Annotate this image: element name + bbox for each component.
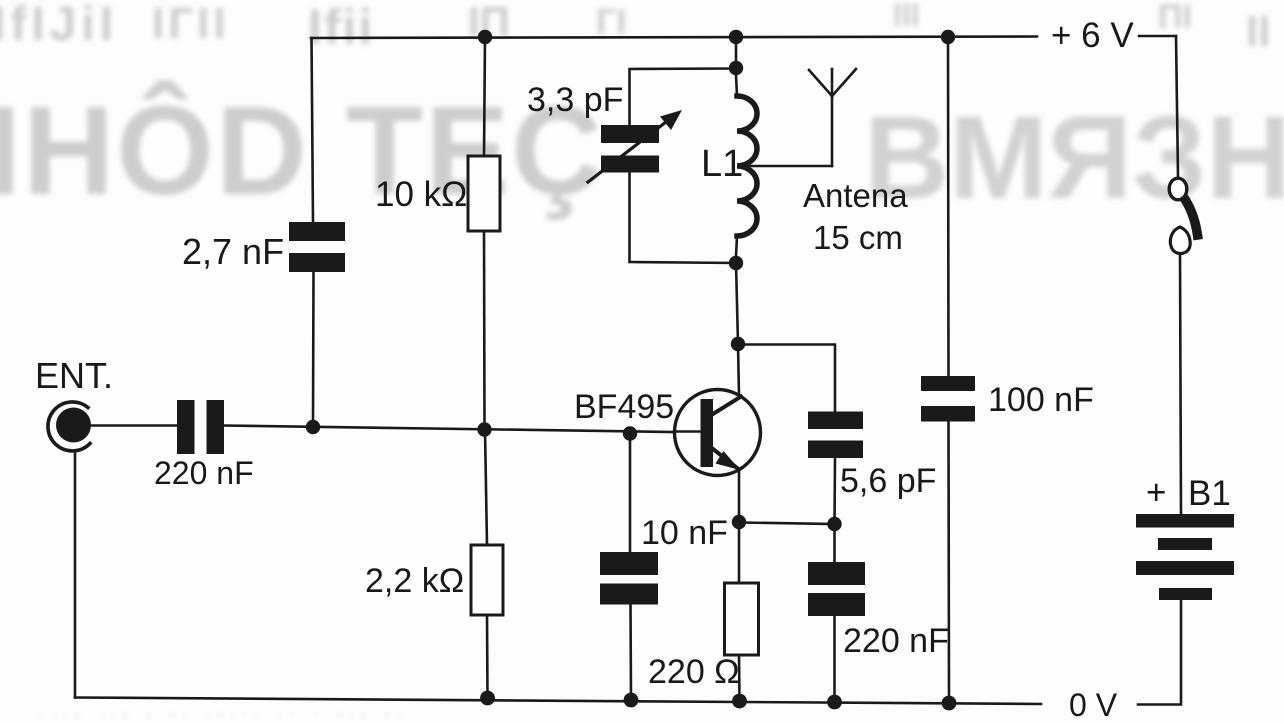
junction base / 10nF [623,426,637,440]
connector ENT input jack [48,402,90,451]
junction tank bottom [729,256,743,270]
svg-text:BF495: BF495 [574,388,674,426]
resistor R 2,2 kOhm [471,545,503,615]
svg-text:220 nF: 220 nF [843,622,949,660]
wire +6V top rail [311,37,1037,39]
svg-text:2,7 nF: 2,7 nF [182,231,284,272]
wire trimmer bottom lead [630,172,737,264]
switch S1 bottom contact [1170,227,1190,254]
wire jack to coupling capacitor [91,424,177,427]
svg-text:10 kΩ: 10 kΩ [375,175,467,214]
capacitor 220 nF input coupling [177,400,224,454]
wire tank top bracket [630,69,737,126]
transistor Q1 BF495 [675,390,761,476]
wire 220nF bypass branch [833,524,836,562]
wire R10k to base [483,231,486,423]
junction 0V / 2,2k [480,691,495,706]
svg-text:Ifii: Ifii [308,0,374,55]
wire base to 10nF [629,434,632,552]
wire input drop [74,452,77,698]
junction tank top [729,61,743,75]
svg-text:.... ... . .. ..... .. . ... .: .... ... . .. ..... .. . ... .. [40,703,409,719]
svg-text:15 cm: 15 cm [813,219,903,256]
junction 0V / 10nF [624,693,639,708]
svg-text:+: + [1146,473,1166,512]
wire 100nF branch [947,37,950,376]
svg-text:III: III [893,0,920,33]
svg-text:10 nF: 10 nF [641,514,728,552]
junction 0V / 220nF [827,695,842,710]
wire transistor emitter down [738,470,741,522]
svg-text:220 Ω: 220 Ω [648,653,740,691]
wire base to R 2,2k [485,430,487,545]
junction top rail / 100nF [941,30,955,44]
resistor R 10 kOhm [468,156,500,231]
svg-text:ENT.: ENT. [35,355,113,396]
svg-text:L1: L1 [701,143,743,185]
inductor L1 [736,75,737,96]
resistor R 220 Ohm [725,583,759,655]
battery B1 [1136,514,1234,600]
junction emitter node [732,515,746,529]
wire coupling cap to base [224,426,674,433]
switch S1 top contact [1169,178,1187,200]
junction top rail / bias divider [478,30,492,44]
svg-text:Antena: Antena [803,177,908,214]
svg-text:ГI: ГI [596,1,626,42]
wire 2,7nF to base [312,272,315,421]
svg-text:B1: B1 [1188,474,1231,513]
junction base / bias divider [477,422,491,436]
wire 2,7nF branch from +6V rail [312,38,314,222]
wire battery to 0V corner [1138,600,1181,705]
svg-text:100 nF: 100 nF [988,381,1094,419]
trimmer capacitor 3,3 pF [601,125,659,173]
junction collector / 5,6pF [731,337,745,351]
wire emitter to 220nF branch [739,523,835,525]
svg-text:2,2 kΩ: 2,2 kΩ [365,562,464,600]
wire 100nF to 0V [947,422,950,704]
junction base / 2,7nF [306,420,320,434]
svg-text:220 nF: 220 nF [154,455,254,491]
wire 5,6pF to emitter rail [833,458,836,524]
svg-text:5,6 pF: 5,6 pF [840,462,936,500]
capacitor 220 nF emitter bypass [808,562,865,616]
trimmer arrow [588,122,666,182]
wire L1 tap to antenna [740,165,832,168]
svg-text:IHÔD TЕÇ: IHÔD TЕÇ [0,80,604,221]
capacitor 10 nF [600,552,658,605]
svg-text:+ 6 V: + 6 V [1051,16,1134,55]
switch S1 lever [1182,195,1198,235]
junction 5,6pF / 220nF [827,517,841,531]
wire 220nF to 0V [833,616,836,702]
svg-text:ВМЯЗНЗ: ВМЯЗНЗ [864,92,1284,224]
capacitor 2,7 nF [289,222,345,272]
svg-text:IГII: IГII [152,0,230,48]
wire 2,2k to 0V [486,615,489,698]
wire collector node into transistor [738,344,739,396]
junction top rail / tank [729,30,743,44]
svg-text:II: II [1246,7,1270,56]
junction 0V / R220 [732,694,747,709]
capacitor 5,6 pF [808,412,863,459]
junction 0V / 100nF [942,696,957,711]
wire 10nF to 0V [629,604,632,700]
wire top rail right segment [1139,35,1176,38]
svg-text:IfIJiI: IfIJiI [0,0,118,51]
label + B1 [1146,473,1231,513]
wire tank bottom to collector node [736,263,738,344]
wire top rail to tank top [735,37,738,68]
svg-text:ПI: ПI [1158,0,1192,36]
capacitor 100 nF [921,376,975,422]
wire right branch down to switch [1176,36,1178,177]
wire emitter to R220 [738,522,741,583]
svg-text:0 V: 0 V [1069,687,1118,723]
wire R220 to 0V [738,655,741,701]
antenna [809,69,856,166]
wire +6V to R 10k [484,37,485,156]
wire switch to battery [1180,254,1181,516]
wire collector node to 5,6pF [738,345,835,412]
svg-text:3,3 pF: 3,3 pF [527,81,623,119]
wire 0V bottom rail [75,698,1041,705]
